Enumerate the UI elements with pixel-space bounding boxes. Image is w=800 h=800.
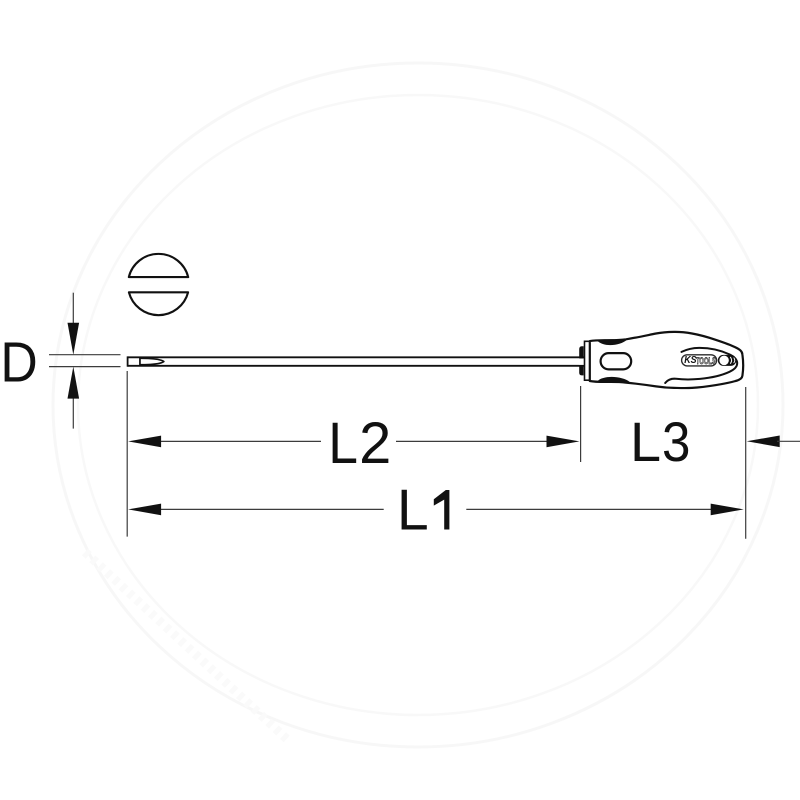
- L1 right arrowhead: [711, 504, 744, 516]
- end cap inner contour: [665, 348, 737, 383]
- ferrule band: [585, 341, 590, 380]
- end cap crescent 2: [733, 358, 736, 363]
- L3 outside arrowhead: [747, 436, 780, 448]
- svg-text:2: 2: [359, 411, 391, 476]
- D dimension lower arrow shaft: [72, 391, 74, 429]
- tip end view upper half (arc + chord): [129, 254, 188, 277]
- right extension line: [745, 387, 747, 539]
- L2 dimension line left segment: [158, 440, 321, 442]
- L3 outside arrow tail: [777, 440, 800, 442]
- shaft body fill: [128, 357, 584, 366]
- ferrule dark rim: [579, 346, 583, 375]
- top crease crescent: [597, 339, 627, 345]
- label L1 letter L: [397, 479, 429, 543]
- blade divider line: [139, 357, 141, 366]
- handle body outline: [590, 332, 743, 388]
- shaft bottom line: [128, 365, 584, 367]
- label D: [0, 332, 37, 395]
- svg-text:L: L: [630, 410, 661, 473]
- svg-text:L: L: [328, 410, 358, 476]
- svg-text:D: D: [0, 332, 37, 395]
- logo text TOOLS: [696, 356, 716, 367]
- blade tip left edge: [127, 356, 129, 366]
- D dimension upper arrowhead: [68, 323, 80, 355]
- L2 left arrowhead: [128, 436, 161, 448]
- label L3 letter L: [630, 410, 661, 473]
- watermark diagonal band: [85, 552, 290, 742]
- L1 dimension line right segment: [466, 508, 713, 510]
- L1 dimension line left segment: [158, 508, 384, 510]
- watermark outer ellipse: [53, 63, 783, 747]
- D dimension lower arrowhead: [68, 367, 80, 399]
- svg-text:KS: KS: [684, 354, 697, 366]
- end black capsule: [718, 355, 737, 366]
- D dimension upper arrow shaft: [72, 293, 74, 330]
- L1 left arrowhead: [128, 504, 161, 516]
- svg-text:L: L: [397, 479, 429, 543]
- D extension line bottom: [49, 366, 121, 368]
- watermark inner ellipse: [78, 95, 758, 715]
- label L1 digit 1 (drawn, no foot serif): [434, 490, 450, 530]
- end cap white circle: [719, 356, 729, 366]
- label L2 digit 2: [359, 411, 391, 476]
- left extension line: [126, 371, 128, 537]
- ferrule shaft cut-through: [579, 359, 585, 365]
- D extension line top: [49, 354, 121, 356]
- L2 right arrowhead: [547, 436, 580, 448]
- tip end view lower half (arc + chord): [129, 292, 188, 315]
- label L2 letter L: [328, 410, 358, 476]
- label L3 digit 3: [662, 412, 690, 474]
- blade ground leaf: [140, 358, 164, 364]
- bottom crease crescent: [597, 377, 630, 383]
- shaft top line: [128, 356, 584, 358]
- logo text KS: [684, 354, 697, 366]
- L2 dimension line right segment: [396, 440, 550, 442]
- logo capsule: [682, 355, 717, 366]
- finger recess capsule: [601, 353, 632, 369]
- middle extension line: [580, 386, 582, 462]
- svg-text:TOOLS: TOOLS: [696, 356, 716, 367]
- svg-text:3: 3: [662, 412, 690, 474]
- end cap crescent 1: [731, 357, 732, 363]
